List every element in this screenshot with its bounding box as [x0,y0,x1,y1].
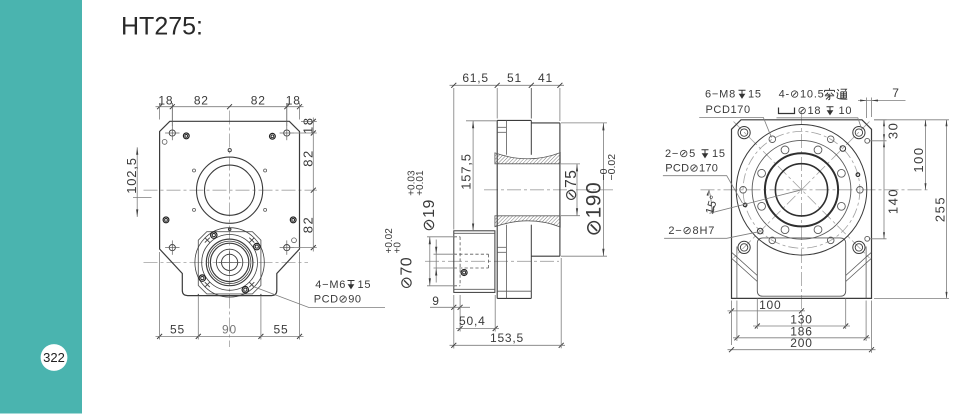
svg-text:50,4: 50,4 [459,314,486,328]
svg-text:255: 255 [932,196,947,222]
rotor flange circle [765,153,838,226]
leader [663,176,743,204]
svg-text:55: 55 [170,322,185,336]
svg-text:2−⊘8H7: 2−⊘8H7 [668,225,715,237]
svg-text:9: 9 [432,294,439,308]
centerline vertical [801,111,803,328]
body circle d190 [736,125,867,256]
CJK chuan [825,88,835,100]
dim 100 bottom [728,310,806,312]
2-d8H7 pins [840,146,846,152]
screw [211,232,217,238]
svg-text:90: 90 [222,322,237,336]
dim 30 [883,120,885,141]
svg-text:55: 55 [274,322,289,336]
screw [163,217,169,223]
svg-text:2−⊘5: 2−⊘5 [665,148,696,160]
svg-text:82: 82 [300,149,315,166]
svg-text:322: 322 [43,350,65,365]
crosshair hole [280,126,294,140]
svg-text:−0.02: −0.02 [606,154,618,181]
housing plate outline [497,119,531,121]
screw [242,287,248,293]
svg-text:100: 100 [911,146,926,172]
svg-text:PCD170: PCD170 [706,104,751,116]
screw [461,270,467,276]
dim right 18 82 82 [312,118,314,252]
svg-text:41: 41 [538,71,553,85]
4 corner holes d10.5/d18 [738,127,750,139]
CJK tong [837,89,848,99]
hidden bore d19 [454,253,489,255]
hidden pilot d70 [454,236,460,238]
main bore outer [197,157,263,223]
svg-text:10: 10 [839,105,853,117]
svg-text:⊘18: ⊘18 [798,105,822,117]
15 deg line [709,190,801,214]
small hole [264,208,267,211]
svg-text:61,5: 61,5 [462,71,489,85]
label d70 tol [384,228,416,290]
6-M8 holes [857,187,864,194]
svg-text:157,5: 157,5 [459,153,474,190]
dim top 18 82 82 18 [156,106,304,108]
label d19 tol [407,170,439,232]
small hole [292,238,297,243]
svg-text:18: 18 [300,116,315,133]
centerline horizontal output [144,261,309,263]
output bearing circles [195,228,264,297]
cylinder outline [531,122,560,124]
svg-text:82: 82 [194,93,209,107]
dim 9 [430,306,470,308]
plate outline [732,120,872,299]
small hole [193,169,196,172]
axis main [484,189,614,191]
bore d75 [775,164,827,216]
dim 186 [733,337,870,339]
screw [199,275,205,281]
dim 61,5 51 41 [450,84,565,86]
dim 153,5 [450,344,566,346]
dim 200 [728,349,876,351]
centerline horizontal [701,189,930,191]
small hole [264,169,267,172]
svg-text:18: 18 [286,93,301,107]
svg-text:51: 51 [507,71,522,85]
side hole top [865,138,870,143]
recess circle d140 [752,140,851,239]
leader [699,117,771,137]
rotor section hatch bottom [495,216,560,227]
dim 130 [753,325,850,327]
tiny hole top [228,149,231,152]
leader [664,232,758,239]
screw [270,133,276,139]
svg-text:18: 18 [158,93,173,107]
dim d75 [576,164,578,216]
svg-text:4−M6: 4−M6 [315,279,346,291]
svg-text:200: 200 [790,336,812,350]
small hole [162,140,167,145]
screw [183,133,189,139]
rotor section hatch top [495,153,560,164]
rotor flange holes [838,169,846,177]
15 deg arc [709,190,712,213]
input housing [454,231,495,293]
svg-text:30: 30 [886,122,901,139]
svg-text:⊘19: ⊘19 [421,199,438,232]
svg-text:15: 15 [748,89,762,101]
dim d70 [429,237,431,286]
dim 7 [858,100,906,102]
svg-text:153,5: 153,5 [490,331,524,345]
svg-text:HT275:: HT275: [121,13,203,41]
svg-text:82: 82 [251,93,266,107]
flange x marks [249,238,254,243]
svg-text:+0: +0 [393,242,404,254]
lower recess outline [757,238,845,296]
output flange square [198,232,261,294]
crosshair hole [165,126,179,140]
dim 140 [883,141,885,239]
centerline horizontal main bore [144,189,318,191]
teal sidebar [0,0,82,414]
svg-text:+0.01: +0.01 [415,170,426,196]
svg-text:⊘70: ⊘70 [399,257,416,290]
dim bottom 55 90 55 [156,335,304,337]
centerline diagonal 2 [734,122,870,259]
leader line [253,286,386,307]
dim 255 [946,120,948,299]
svg-text:140: 140 [886,188,901,214]
small hole [193,208,196,211]
leader [777,118,862,129]
page number badge [41,344,68,371]
svg-text:⊘190: ⊘190 [583,182,606,237]
svg-text:82: 82 [300,216,315,233]
svg-text:15: 15 [712,148,726,160]
PCD170 circle [743,131,860,248]
svg-text:7: 7 [892,86,899,100]
svg-text:PCD⊘90: PCD⊘90 [314,294,362,306]
2-d5 pins [856,173,860,177]
screw [290,217,296,223]
centerline vertical [229,111,231,348]
axis input [425,260,559,262]
dim 102,5 [136,147,138,217]
svg-text:PCD⊘170: PCD⊘170 [665,163,718,175]
svg-text:15: 15 [358,279,372,291]
dim d19 [435,240,437,283]
dim 50,4 [456,328,499,330]
main bore inner [205,165,255,215]
plate outline [160,121,300,295]
corner chamfer band right [865,247,867,299]
counterbore symbol [779,108,795,114]
dim 157,5 [472,121,474,231]
svg-text:6−M8: 6−M8 [705,89,736,101]
screw [254,243,260,249]
crosshair hole [280,240,294,254]
corner chamfer band left [736,247,738,299]
centerline diagonal 1 [734,122,870,259]
svg-text:100: 100 [759,298,781,312]
dim 100 [925,120,927,190]
tiny mark bottom [229,228,231,230]
crosshair hole [165,240,179,254]
svg-text:4-⊘10.5: 4-⊘10.5 [779,89,825,101]
dim d190 tol [602,123,604,256]
svg-text:102,5: 102,5 [124,157,139,194]
svg-text:⊘75: ⊘75 [563,170,580,202]
side hole bottom [865,236,870,241]
